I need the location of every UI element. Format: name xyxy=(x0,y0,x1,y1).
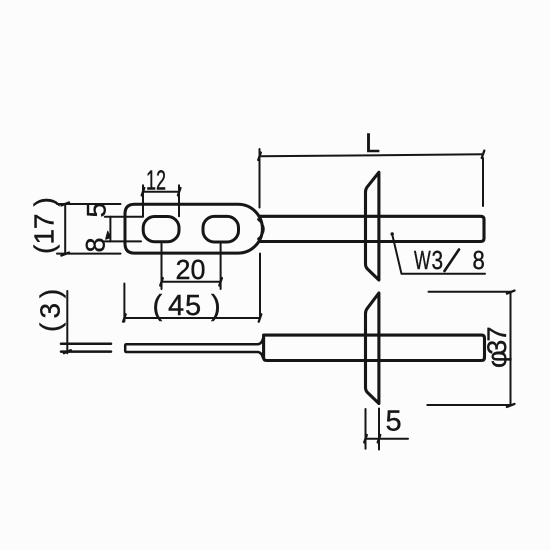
leader W3/8 xyxy=(392,234,485,274)
tick 5 right xyxy=(378,435,381,442)
dim (3) line xyxy=(66,291,68,353)
rod (top view) xyxy=(259,216,484,241)
wire main segment xyxy=(125,339,263,358)
svg-text:5: 5 xyxy=(386,406,402,438)
hole H1 xyxy=(143,217,179,242)
svg-text:8: 8 xyxy=(473,246,485,275)
dim 20 ext right xyxy=(220,244,222,289)
text W3/8 xyxy=(414,245,485,275)
tick 3 bottom xyxy=(64,350,71,353)
dim 8 line xyxy=(109,217,111,242)
ext hole top xyxy=(105,216,143,218)
tick 12 left xyxy=(142,188,145,195)
dim 5 ext right xyxy=(378,409,380,450)
tick L right xyxy=(482,151,485,158)
tick 45 right xyxy=(259,314,262,321)
tick 17 top xyxy=(61,202,69,205)
tick 5 left xyxy=(364,435,367,442)
dim 12 ext left xyxy=(142,185,144,216)
svg-text:(17): (17) xyxy=(29,197,60,254)
svg-text:8: 8 xyxy=(81,237,111,252)
tick L left xyxy=(258,153,261,160)
ext hole bottom xyxy=(105,240,141,242)
dim L line xyxy=(260,154,484,156)
ext line L left / (45) right xyxy=(259,149,262,317)
svg-text:(3): (3) xyxy=(35,289,66,332)
tick 45 left xyxy=(123,314,126,321)
tick 12 right xyxy=(178,188,181,195)
dim phi37 line xyxy=(510,292,512,405)
svg-text:W: W xyxy=(414,245,431,274)
dim phi37 ext bottom xyxy=(427,404,512,406)
dim 20 ext left xyxy=(161,243,163,289)
ext plate bottom xyxy=(57,253,121,255)
svg-text:5: 5 xyxy=(82,202,112,217)
dim (45) ext left xyxy=(123,284,125,322)
svg-text:12: 12 xyxy=(146,165,166,196)
tick phi37 bottom xyxy=(507,404,515,407)
tick 20 left xyxy=(160,278,163,285)
tick phi37 top xyxy=(507,291,515,294)
disc D1 (top view) xyxy=(366,172,379,280)
svg-text:20: 20 xyxy=(176,254,206,285)
dim (45) line xyxy=(124,317,260,319)
wire tail segment xyxy=(61,344,111,352)
tick 20 right xyxy=(219,278,222,285)
dim 5 ext left xyxy=(365,409,367,449)
tick 17 bottom xyxy=(61,253,69,256)
dim 12 line xyxy=(143,191,179,193)
dim 5 line xyxy=(366,438,409,440)
dim (17) line xyxy=(64,204,66,254)
sleeve (bottom view rod) xyxy=(264,335,485,360)
arrow 8 xyxy=(106,231,111,239)
dim 12 ext right xyxy=(178,185,180,216)
dim phi37 ext top xyxy=(429,291,512,293)
svg-text:L: L xyxy=(365,128,380,158)
rod tip arc xyxy=(258,219,264,239)
plate outline xyxy=(125,204,262,253)
dim 20 line xyxy=(162,281,221,283)
ext plate top xyxy=(57,203,121,205)
ext line L right xyxy=(482,158,484,206)
disc D2 (bottom view) xyxy=(366,293,379,404)
svg-text:φ37: φ37 xyxy=(482,326,512,368)
hole H2 xyxy=(203,216,239,242)
svg-text:3: 3 xyxy=(432,246,444,275)
